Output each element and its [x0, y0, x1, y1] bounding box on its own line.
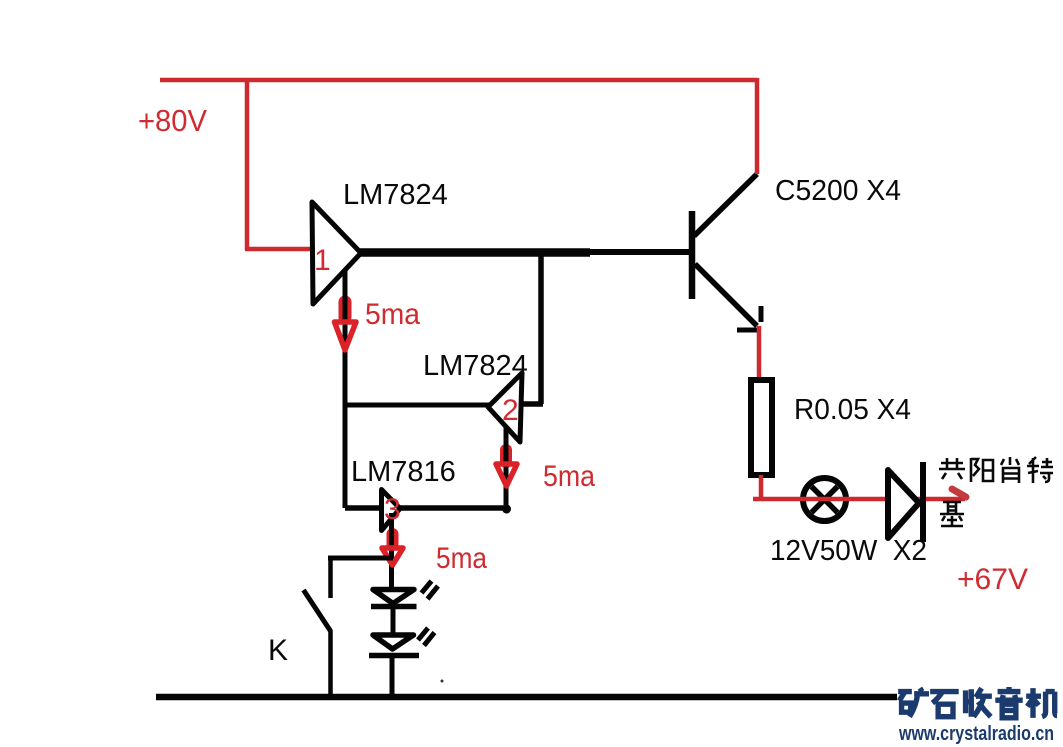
switch K blade	[304, 590, 331, 631]
D2 emission ticks	[418, 628, 435, 646]
Q1 collector	[694, 174, 757, 236]
watermark logo char 机	[1026, 688, 1057, 718]
arrow 5ma no.2 bar	[500, 450, 512, 462]
svg-text:5ma: 5ma	[543, 460, 595, 493]
label 肖 (schottky note char 3)	[1001, 457, 1019, 483]
Q1 emitter	[695, 264, 757, 326]
lamp L1 12V50W	[803, 478, 846, 521]
svg-text:LM7824: LM7824	[343, 179, 448, 211]
arrow 5ma no.2 head	[496, 464, 517, 486]
arrow 5ma no.3 head	[382, 548, 403, 565]
svg-text:12V50W X2: 12V50W X2	[770, 535, 927, 567]
wire U1 ground leg vertical	[343, 271, 348, 508]
transistor Q1 C5200 base bar	[689, 211, 696, 299]
wire bottom link y508	[345, 505, 508, 511]
watermark logo char 收	[966, 688, 992, 717]
label 基 (schottky note char 5)	[940, 502, 964, 526]
junction blob at U2 ground node	[502, 505, 511, 514]
svg-text:C5200 X4: C5200 X4	[775, 175, 901, 207]
switch K top terminal	[328, 556, 333, 598]
svg-text:+80V: +80V	[138, 103, 207, 138]
wire +80V top rail (red)	[160, 78, 757, 83]
arrow 5ma no.3 bar	[387, 534, 399, 545]
wire U3 ground leg down to LEDs	[389, 513, 394, 590]
wire D2 to ground rail	[390, 656, 395, 698]
Q1 emitter arrowhead	[737, 306, 761, 330]
wire stub to U2 right side	[521, 401, 543, 407]
svg-text:5ma: 5ma	[365, 298, 420, 331]
ground rail	[156, 694, 897, 701]
stray dot	[441, 680, 444, 683]
watermark logo char 矿	[898, 688, 929, 717]
wire red collector rail drop	[755, 78, 760, 174]
watermark logo char 石	[930, 692, 959, 717]
resistor R1 R0.05	[751, 380, 772, 475]
diode D1 LED	[371, 590, 417, 607]
wire U2 ground leg vertical	[504, 427, 509, 510]
op-amp U2 LM7824 regulator triangle 2	[488, 373, 522, 442]
diode D2 LED	[369, 635, 419, 656]
wire red emitter to R1	[757, 326, 762, 379]
svg-text:LM7824: LM7824	[423, 350, 528, 382]
svg-text:+67V: +67V	[957, 563, 1028, 596]
wire U1 output to Q1 base	[358, 248, 590, 257]
op-amp U1 LM7824 regulator triangle 1	[312, 202, 361, 304]
diode D3 schottky	[888, 462, 923, 542]
wire U2 output to left vertical	[345, 403, 489, 408]
wire between LEDs	[391, 608, 396, 637]
svg-text:3: 3	[384, 493, 401, 526]
switch K bottom terminal	[328, 630, 333, 697]
arrow 5ma no.1 bar	[339, 302, 352, 317]
svg-text:K: K	[268, 634, 288, 667]
wire red end tick	[952, 489, 966, 497]
wire junction drop at x541	[538, 253, 544, 404]
watermark logo char 音	[995, 687, 1022, 718]
wire to switch branch	[328, 556, 393, 561]
label 特 (schottky note char 4)	[1027, 457, 1053, 483]
arrow 5ma no.1 head	[335, 322, 357, 350]
wire red drop from rail to U1 input	[245, 78, 316, 250]
svg-text:5ma: 5ma	[436, 542, 487, 575]
svg-text:1: 1	[314, 244, 331, 277]
label 共 (schottky note char 1)	[939, 458, 965, 479]
D1 emission ticks	[422, 581, 439, 599]
svg-text:www.crystalradio.cn: www.crystalradio.cn	[898, 723, 1054, 745]
svg-text:LM7816: LM7816	[351, 456, 456, 488]
op-amp U3 LM7816 regulator triangle 3	[382, 490, 401, 531]
wire red R1 to output node	[753, 475, 965, 499]
label 阳 (schottky note char 2)	[971, 458, 993, 482]
svg-text:R0.05 X4: R0.05 X4	[794, 394, 911, 426]
svg-text:2: 2	[502, 394, 519, 427]
